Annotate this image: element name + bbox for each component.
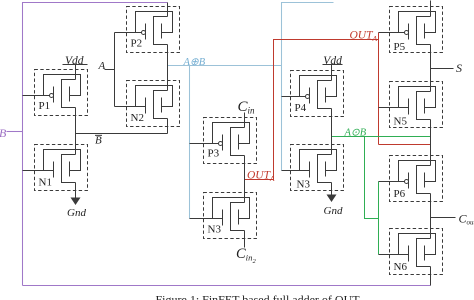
svg-text:B: B [0, 126, 7, 140]
svg-text:P2: P2 [131, 38, 143, 50]
svg-text:A⊙B: A⊙B [344, 128, 367, 139]
svg-text:Cout: Cout [459, 211, 474, 226]
svg-text:N5: N5 [394, 116, 408, 128]
svg-text:N3: N3 [297, 179, 311, 191]
svg-text:P1: P1 [39, 100, 51, 112]
svg-text:N1: N1 [39, 177, 52, 189]
svg-text:P6: P6 [394, 188, 406, 200]
svg-text:P5: P5 [394, 41, 406, 53]
svg-text:Gnd: Gnd [324, 205, 343, 217]
svg-text:N3: N3 [208, 224, 222, 236]
svg-text:Figure 1: FinFET based full ad: Figure 1: FinFET based full adder of OUT… [156, 293, 366, 300]
svg-text:OUTA: OUTA [247, 170, 275, 184]
svg-text:B: B [95, 135, 102, 147]
svg-text:Vdd: Vdd [65, 55, 84, 67]
svg-text:Gnd: Gnd [67, 207, 86, 219]
svg-text:N6: N6 [394, 261, 408, 273]
svg-text:A⊕B: A⊕B [183, 57, 206, 68]
svg-text:Cin2: Cin2 [236, 246, 256, 265]
svg-text:A: A [98, 60, 106, 72]
svg-text:Cin: Cin [238, 99, 256, 116]
svg-text:S: S [456, 61, 462, 75]
svg-text:P3: P3 [208, 148, 220, 160]
svg-text:OUTA: OUTA [350, 30, 378, 44]
svg-text:N2: N2 [131, 112, 144, 124]
svg-text:Vdd: Vdd [323, 55, 342, 67]
svg-text:P4: P4 [295, 102, 307, 114]
